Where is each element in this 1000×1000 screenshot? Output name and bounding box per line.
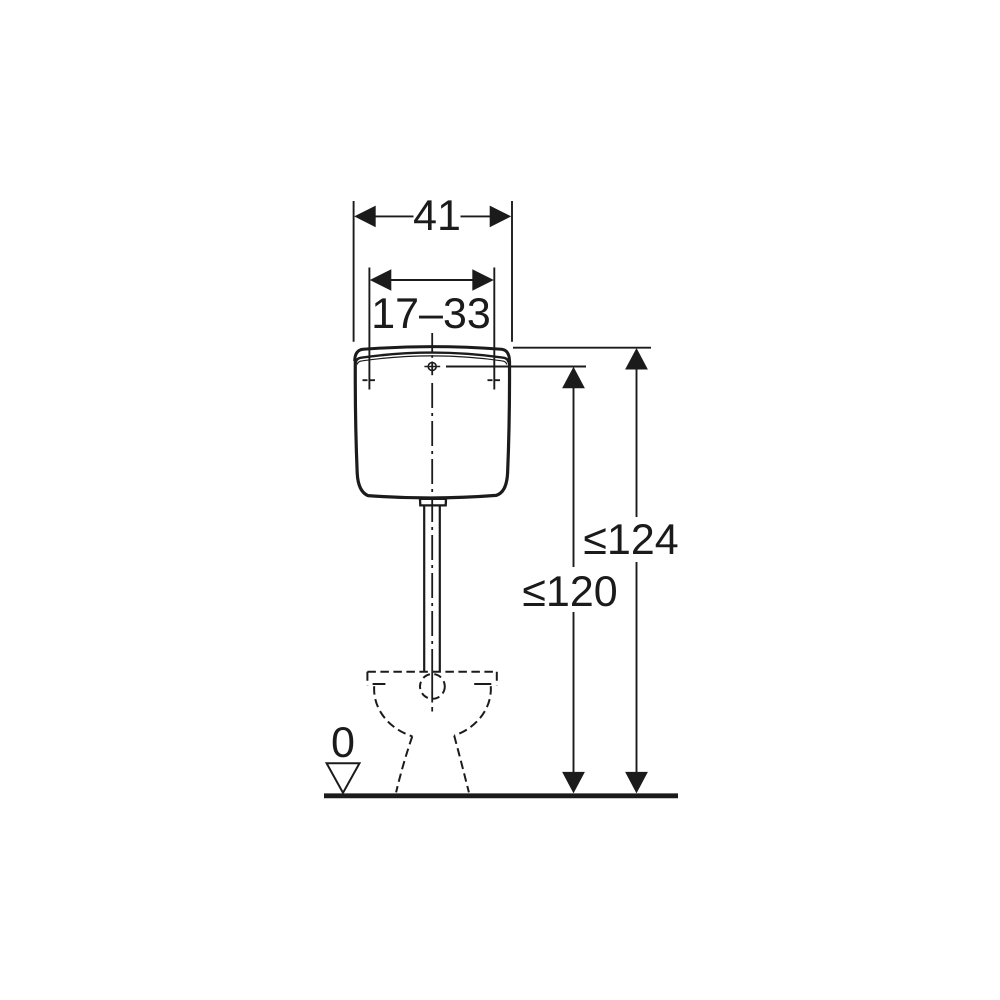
dim 124 label — [585, 524, 678, 554]
datum label 0 — [333, 727, 354, 757]
wc pan rim left edge — [366, 672, 368, 686]
cistern body — [355, 361, 509, 498]
wc pan pedestal right line — [454, 736, 469, 793]
water inlet mark circle — [428, 363, 436, 371]
wc pan inlet centerline end dash — [431, 707, 433, 712]
dim 17-33 left extension line — [368, 268, 370, 390]
dim 41 line right segment — [461, 215, 491, 217]
cistern lid middle line — [356, 353, 509, 363]
dim 17-33 right end tick — [488, 379, 502, 381]
cistern lid outer line — [355, 347, 510, 361]
dim 120 down arrowhead — [562, 772, 585, 794]
wc pan bowl left arc — [374, 686, 412, 736]
dim 124 up arrowhead — [625, 348, 648, 370]
dim 124 top extension line — [513, 347, 651, 349]
dim 120 label — [524, 576, 616, 606]
wc pan inlet circle dashed — [420, 674, 445, 699]
dim 17-33 left arrowhead — [370, 269, 392, 291]
wc pan rim right edge — [496, 672, 498, 686]
dim 17-33 line — [391, 279, 473, 281]
water inlet crosshair vertical — [431, 362, 433, 376]
dim 41 line left segment — [375, 215, 414, 217]
wc pan bowl right arc — [454, 686, 491, 735]
datum triangle — [327, 763, 360, 793]
wc pan pedestal left line — [396, 736, 412, 792]
wc pan rim top dashed line — [367, 671, 496, 673]
dim 17-33 right arrowhead — [472, 269, 494, 291]
wc pan rim inner right dash — [474, 683, 491, 685]
dim 120 vertical line lower segment — [573, 612, 575, 774]
dim 120 vertical line upper segment — [573, 385, 575, 567]
wc pan inlet centerline solid segment — [431, 672, 433, 703]
dim 120 extension line from inlet mark — [446, 366, 586, 368]
dim 41 right arrowhead — [490, 206, 512, 228]
dim 41 left arrowhead — [354, 206, 376, 228]
flush pipe right wall — [439, 507, 441, 672]
floor line — [324, 793, 678, 798]
dim 41 left extension line — [353, 201, 355, 342]
cistern lid bottom thin line — [357, 356, 507, 365]
vertical centerline dot above inlet — [431, 355, 433, 358]
flush pipe collar — [420, 499, 446, 506]
flush pipe left wall — [423, 507, 425, 672]
vertical centerline (dash-dot) — [431, 383, 433, 672]
water inlet crosshair horizontal — [424, 366, 440, 368]
dim 124 down arrowhead — [625, 772, 648, 794]
dim 124 vertical line upper segment — [636, 366, 638, 517]
dim 124 vertical line lower segment — [636, 562, 638, 774]
dim 41 label — [414, 200, 459, 230]
dim 17-33 left end tick — [363, 379, 377, 381]
dim 17-33 right extension line — [493, 268, 495, 390]
dim 17-33 label — [374, 298, 488, 328]
wc pan rim inner left dash — [373, 683, 386, 685]
dim 120 up arrowhead — [562, 367, 585, 389]
vertical centerline top dash — [431, 333, 433, 352]
dim 41 right extension line — [511, 201, 513, 342]
